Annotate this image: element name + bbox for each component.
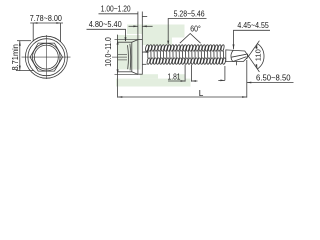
arrow 1.00~1.20 left (pointing right) (133, 25, 138, 27)
svg-text:1.00~1.20: 1.00~1.20 (101, 3, 131, 13)
side view: skirt cone bottom (132, 72, 138, 75)
dim 6.50~8.50 left arrow seg (218, 79, 225, 81)
dim 8.71min bottom extension line (16, 70, 34, 72)
arrow 8.71 bottom (19, 66, 21, 71)
washer inner circle (28, 39, 65, 76)
arrow 7.78 left (33, 22, 37, 24)
dim 1.00~1.20 small tail tick (142, 16, 147, 18)
arrow 110 arc bottom (255, 64, 257, 69)
dim 4.45~4.55 line + leader (234, 30, 271, 49)
110 deg arc (257, 44, 264, 69)
110 deg bottom extension (249, 56, 260, 72)
green watermark bridge left (140, 74, 158, 78)
svg-text:6.50~8.50: 6.50~8.50 (256, 72, 291, 82)
svg-text:1.81: 1.81 (168, 72, 181, 82)
drill point bottom tick (235, 62, 237, 66)
hex inscribed circle (33, 43, 61, 71)
dim 1.00~1.20 right arrow seg (142, 25, 152, 27)
side view: hex facet arc 2 (129, 44, 132, 71)
drill point outline (226, 50, 249, 62)
svg-text:5.28~5.46: 5.28~5.46 (174, 9, 205, 19)
dim 1.00~1.20 left ext line (137, 12, 139, 40)
arrow L right (242, 96, 247, 98)
arrow 4.80 leader down (125, 37, 127, 42)
side view: hex rear vertical (131, 42, 133, 72)
dim 6.50~8.50 tip ext line (246, 60, 248, 98)
green watermark mid bar (142, 34, 185, 38)
arrow 4.45 down (233, 44, 235, 49)
svg-text:7.78~8.00: 7.78~8.00 (30, 13, 62, 23)
green watermark behind head (117, 35, 141, 70)
side view: thread runout top line (142, 51, 147, 54)
drill point cutting edge 1 (231, 54, 246, 57)
dim 1.00~1.20 underline/leader (99, 13, 138, 15)
green watermark bridge right (177, 74, 185, 78)
thread runout wedge (142, 51, 148, 53)
dim 1.81 left ext (184, 65, 186, 82)
head top view: centerline vertical (45, 35, 47, 79)
screw centerline stub (112, 56, 127, 58)
dim 10.0~11.0 top ext (115, 39, 138, 41)
thread coils (145, 44, 226, 64)
dim 7.78~8.00 left extension line (32, 23, 34, 41)
arrow 1.81 right (191, 80, 196, 82)
side view: shank bottom line (142, 63, 146, 65)
arrow 10.0~11.0 up (117, 40, 119, 45)
dim 1.81 right arrow seg (191, 80, 197, 82)
leader 4.80~5.40 (87, 29, 126, 41)
dim L dimension line (118, 96, 247, 98)
side view: hex facet arc (127, 45, 130, 69)
svg-text:L: L (199, 89, 204, 98)
side view: facet line upper (118, 54, 127, 56)
svg-text:4.80~5.40: 4.80~5.40 (89, 19, 122, 29)
arrow 1.81 left (181, 80, 186, 82)
dim 8.71min dimension line (19, 41, 21, 71)
dim 10.0~11.0 bottom ext (115, 73, 138, 75)
drill point cutting edge 2 (233, 57, 246, 62)
arrow 8.71 top (19, 41, 21, 46)
dim 5.28~5.46 line + leader (168, 19, 206, 44)
drill point flute curve (231, 50, 233, 61)
dim 1.81 underline + left arrow seg (168, 80, 185, 82)
svg-text:60°: 60° (190, 25, 201, 34)
washer outer circle (25, 36, 67, 78)
head top view: centerline horizontal (22, 56, 71, 58)
arrow L left (118, 96, 123, 98)
inner recess circle (34, 45, 58, 69)
60 degree flank lines (180, 34, 201, 44)
side view: facet line lower (118, 59, 127, 61)
green watermark bottom band (116, 79, 191, 87)
arrow 1.00~1.20 right (pointing left) (142, 25, 147, 27)
arrow 5.28 down (167, 41, 169, 46)
dim 7.78~8.00 dimension line (30, 22, 63, 24)
side view: washer rect (138, 40, 142, 75)
arrow 110 arc top (255, 44, 257, 49)
side view: hex top edge (118, 41, 132, 43)
side view: skirt cone top (132, 40, 138, 43)
dim 6.50~8.50 left ext (224, 66, 226, 80)
dim 8.71min top extension line (17, 40, 31, 42)
dim 1.81 right ext (190, 65, 192, 82)
svg-text:4.45~4.55: 4.45~4.55 (237, 20, 269, 30)
arrow 10.0~11.0 down (117, 69, 119, 74)
side view: hex bottom edge (118, 71, 132, 73)
svg-text:110°: 110° (253, 46, 262, 61)
arrow 6.50 right (247, 82, 252, 84)
110 deg top extension (249, 41, 260, 57)
arrow 6.50 left (220, 80, 225, 82)
drill point chisel edge (247, 54, 248, 59)
green watermark upper bar (127, 25, 185, 35)
svg-text:8.71min: 8.71min (11, 44, 20, 71)
dim 1.00~1.20 left arrow seg (129, 25, 138, 27)
hexagon (30, 43, 62, 71)
dim 6.50~8.50 dim line under text (247, 82, 294, 84)
svg-text:10.0~11.0: 10.0~11.0 (104, 37, 113, 67)
arrow 7.78 right (56, 22, 60, 24)
dim 7.78~8.00 right extension line (60, 23, 62, 42)
side view: head face / dim line vertical (117, 35, 119, 98)
green watermark lower blob (142, 38, 172, 46)
dim 1.00~1.20 right ext line (141, 12, 143, 40)
